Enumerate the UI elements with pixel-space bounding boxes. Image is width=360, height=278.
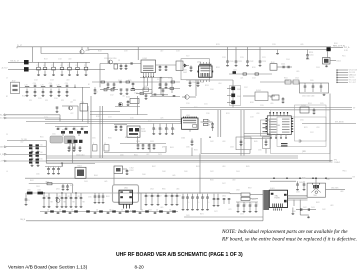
svg-text:R: R [209, 124, 211, 126]
svg-text:D6: D6 [41, 144, 43, 146]
svg-text:C121: C121 [238, 61, 242, 63]
svg-text:C6: C6 [59, 210, 61, 212]
svg-text:L122: L122 [70, 113, 74, 115]
svg-text:L313: L313 [316, 127, 320, 129]
svg-text:C1: C1 [157, 79, 159, 81]
svg-text:C650: C650 [184, 171, 188, 173]
svg-text:C312: C312 [310, 132, 314, 134]
svg-text:L119: L119 [160, 51, 163, 53]
svg-text:X101: X101 [126, 97, 130, 99]
svg-text:C112: C112 [110, 95, 114, 97]
svg-text:L: L [199, 202, 200, 204]
svg-text:C850: C850 [222, 196, 226, 198]
svg-text:C640: C640 [36, 174, 40, 176]
svg-text:L121: L121 [233, 69, 237, 71]
svg-text:L20: L20 [41, 84, 44, 86]
svg-text:R8: R8 [64, 202, 66, 204]
svg-text:K601: K601 [78, 165, 82, 167]
svg-text:FL201: FL201 [256, 90, 261, 92]
svg-text:C: C [244, 143, 246, 145]
svg-text:] R: ] R [163, 147, 166, 149]
svg-text:FL401: FL401 [270, 188, 275, 190]
svg-text:L665: L665 [160, 207, 164, 209]
svg-text:L204: L204 [218, 83, 222, 85]
svg-text:L622: L622 [146, 154, 150, 156]
svg-text:C808: C808 [236, 190, 240, 192]
svg-text:C430: C430 [299, 182, 303, 184]
svg-text:C6: C6 [96, 210, 98, 212]
svg-text:R616: R616 [108, 138, 112, 140]
svg-text:C: C [168, 129, 170, 131]
svg-text:R8: R8 [83, 202, 85, 204]
svg-text:L4: L4 [6, 171, 8, 173]
svg-text:C670: C670 [186, 215, 190, 217]
svg-text:R208: R208 [250, 102, 254, 104]
svg-text:C204: C204 [192, 82, 196, 84]
svg-text:R651: R651 [196, 166, 200, 168]
svg-text:C1: C1 [96, 92, 98, 94]
svg-text:C310: C310 [300, 120, 304, 122]
svg-text:C20: C20 [65, 83, 68, 85]
svg-text:C105: C105 [38, 98, 42, 100]
svg-text:C804: C804 [150, 189, 154, 191]
svg-text:C305: C305 [310, 80, 314, 82]
svg-text:SW_B+: SW_B+ [344, 47, 350, 49]
svg-text:C103: C103 [50, 80, 54, 82]
svg-text:C106: C106 [54, 98, 58, 100]
svg-text:C1: C1 [84, 65, 86, 67]
svg-text:C205: C205 [200, 82, 204, 84]
svg-text:J103: J103 [271, 62, 275, 64]
svg-text:8-20: 8-20 [135, 265, 145, 270]
svg-text:L683: L683 [330, 205, 334, 207]
svg-text:C634: C634 [230, 147, 234, 149]
svg-text:C221: C221 [262, 57, 266, 59]
svg-text:C: C [75, 127, 77, 129]
svg-text:C121: C121 [108, 117, 112, 119]
svg-text:C8: C8 [46, 196, 48, 198]
svg-text:RX_B: RX_B [0, 118, 5, 120]
svg-text:C218: C218 [222, 57, 226, 59]
svg-text:C610: C610 [52, 134, 56, 136]
svg-text:C120: C120 [229, 61, 233, 63]
svg-text:R210: R210 [194, 107, 198, 109]
svg-text:CV301: CV301 [301, 105, 306, 107]
svg-text:SPI_MOSI: SPI_MOSI [335, 122, 344, 124]
svg-text:C20: C20 [33, 83, 36, 85]
svg-text:C550: C550 [136, 141, 140, 143]
svg-text:C: C [60, 167, 62, 169]
svg-text:C117: C117 [160, 78, 164, 80]
svg-text:U801: U801 [124, 187, 128, 189]
svg-text:R671: R671 [200, 214, 204, 216]
svg-text:C9: C9 [168, 196, 170, 198]
svg-text:C109: C109 [86, 50, 90, 52]
svg-text:R807: R807 [248, 188, 252, 190]
svg-text:C: C [67, 127, 69, 129]
svg-text:PA_B: PA_B [20, 218, 25, 221]
svg-text:TP401: TP401 [342, 171, 347, 173]
svg-text:R805: R805 [162, 189, 166, 191]
svg-text:C646: C646 [142, 174, 146, 176]
svg-text:T401: T401 [314, 195, 318, 197]
svg-text:C110 L110 R110: C110 L110 R110 [104, 58, 116, 60]
svg-text:R502: R502 [306, 59, 310, 61]
svg-text:CS J2-5: CS J2-5 [349, 77, 355, 79]
svg-text:L811: L811 [38, 190, 42, 192]
svg-text:R621: R621 [134, 155, 138, 157]
svg-text:Q102: Q102 [118, 80, 122, 82]
svg-text:R220: R220 [252, 67, 256, 69]
svg-text:L653: L653 [222, 166, 226, 168]
svg-text:C1: C1 [28, 200, 30, 202]
svg-text:R118: R118 [144, 86, 148, 88]
svg-text:C232: C232 [250, 117, 254, 119]
svg-text:C21: C21 [61, 100, 64, 102]
svg-text:L633: L633 [222, 141, 226, 143]
svg-text:C129: C129 [176, 51, 180, 53]
svg-text:R314: R314 [308, 103, 312, 105]
svg-text:2.5MHZ: 2.5MHZ [334, 162, 341, 164]
svg-text:C8: C8 [78, 196, 80, 198]
svg-text:C8: C8 [68, 196, 70, 198]
svg-text:J102: J102 [12, 80, 16, 82]
svg-text:C301 C302 C303: C301 C302 C303 [302, 96, 314, 98]
svg-text:L806: L806 [176, 189, 180, 191]
svg-text:C102: C102 [34, 80, 38, 82]
svg-text:R681: R681 [316, 202, 320, 204]
svg-text:C108: C108 [58, 59, 62, 61]
svg-text:C210: C210 [186, 103, 190, 105]
svg-text:C402: C402 [183, 72, 187, 74]
svg-text:C239: C239 [272, 44, 276, 46]
svg-text:C315: C315 [320, 103, 324, 105]
svg-text:C654: C654 [236, 171, 240, 173]
svg-text:C680: C680 [292, 211, 296, 213]
svg-text:VCO: VCO [186, 56, 190, 58]
svg-text:CLK J2-3: CLK J2-3 [349, 72, 356, 74]
svg-text:C6: C6 [141, 210, 143, 212]
svg-text:C652: C652 [210, 171, 214, 173]
svg-text:C: C [55, 167, 57, 169]
svg-text:C119: C119 [124, 51, 128, 53]
svg-text:L249: L249 [300, 44, 304, 46]
svg-text:R506: R506 [334, 43, 338, 45]
svg-text:D6: D6 [41, 152, 43, 154]
svg-text:R663: R663 [130, 211, 134, 213]
svg-text:R655: R655 [246, 166, 250, 168]
svg-text:C21: C21 [29, 100, 32, 102]
svg-text:U501: U501 [337, 60, 341, 62]
svg-text:A_9.1V: A_9.1V [2, 67, 9, 70]
svg-text:U301: U301 [277, 125, 281, 127]
svg-text:C620: C620 [120, 155, 124, 157]
svg-text:R644: R644 [94, 175, 98, 177]
svg-text:L688: L688 [340, 191, 344, 193]
svg-text:L810: L810 [27, 190, 31, 192]
svg-text:C: C [239, 204, 241, 206]
svg-text:R611: R611 [40, 137, 44, 139]
svg-text:ANT: ANT [0, 145, 5, 148]
svg-text:C3: C3 [118, 60, 120, 62]
svg-text:2ND_MIX: 2ND_MIX [331, 188, 339, 190]
svg-text:L: L [189, 202, 190, 204]
svg-text:C6: C6 [121, 210, 123, 212]
svg-text:D201: D201 [237, 89, 241, 91]
svg-text:F501: F501 [342, 56, 346, 58]
svg-text:C113: C113 [134, 93, 138, 95]
svg-text:RX_5 J2-6: RX_5 J2-6 [349, 80, 356, 82]
svg-text:C125: C125 [130, 118, 134, 120]
svg-text:C: C [83, 127, 85, 129]
svg-text:C219: C219 [240, 57, 244, 59]
svg-text:C206: C206 [210, 89, 214, 91]
svg-text:C207: C207 [244, 87, 248, 89]
svg-text:FILTER: FILTER [275, 198, 281, 200]
svg-text:C1: C1 [37, 65, 39, 67]
svg-text:L20: L20 [57, 84, 60, 86]
svg-text:L505: L505 [296, 71, 300, 73]
svg-text:R229: R229 [216, 44, 220, 46]
svg-text:R301: R301 [284, 78, 288, 80]
svg-text:C: C [162, 129, 164, 131]
svg-text:C230: C230 [206, 113, 210, 115]
svg-text:R203: R203 [205, 85, 209, 87]
svg-text:L20: L20 [25, 84, 28, 86]
svg-text:C: C [245, 204, 247, 206]
svg-text:16.8M: 16.8M [141, 131, 146, 133]
svg-text:C209: C209 [260, 105, 264, 107]
svg-text:R117: R117 [168, 78, 172, 80]
svg-text:R631: R631 [194, 150, 198, 152]
svg-text:L673: L673 [228, 209, 232, 211]
svg-text:C: C [59, 127, 61, 129]
svg-text:PA_A: PA_A [0, 114, 5, 117]
svg-text:C8: C8 [59, 196, 61, 198]
svg-text:R603: R603 [62, 130, 66, 132]
svg-text:U101: U101 [143, 58, 148, 60]
svg-text:C803: C803 [36, 186, 40, 188]
svg-text:L209: L209 [270, 103, 274, 105]
svg-text:C6: C6 [156, 210, 158, 212]
svg-text:C643: C643 [84, 181, 88, 183]
svg-text:C141: C141 [281, 64, 285, 66]
svg-text:R624: R624 [170, 147, 174, 149]
svg-text:R685: R685 [302, 178, 306, 180]
svg-text:C20: C20 [49, 83, 52, 85]
svg-text:RF board, so the entire board: RF board, so the entire board must be re… [221, 236, 357, 243]
svg-text:R151: R151 [309, 52, 313, 54]
svg-text:C662: C662 [110, 210, 114, 212]
svg-text:UHF RF BOARD VER A/B SCHEMATIC: UHF RF BOARD VER A/B SCHEMATIC (PAGE 1 O… [116, 252, 243, 258]
svg-text:R113: R113 [152, 96, 156, 98]
svg-text:R124: R124 [148, 121, 152, 123]
svg-text:Q401: Q401 [197, 62, 201, 64]
svg-text:] 5R: ] 5R [302, 151, 306, 153]
svg-text:R1: R1 [88, 84, 90, 86]
svg-text:L649: L649 [172, 175, 176, 177]
svg-text:L: L [209, 202, 210, 204]
svg-text:C682: C682 [322, 209, 326, 211]
svg-text:D202: D202 [237, 96, 241, 98]
svg-text:C9: C9 [154, 196, 156, 198]
svg-text:C123: C123 [262, 61, 266, 63]
svg-text:C9: C9 [179, 196, 181, 198]
svg-text:C9: C9 [160, 196, 162, 198]
svg-text:C551: C551 [150, 141, 154, 143]
svg-text:L240: L240 [285, 80, 289, 82]
svg-text:D401: D401 [183, 70, 187, 72]
svg-text:Q801: Q801 [56, 189, 60, 191]
svg-text:L126: L126 [160, 118, 164, 120]
svg-text:L612: L612 [20, 142, 24, 144]
svg-text:C636: C636 [258, 150, 262, 152]
svg-text:C: C [204, 197, 206, 199]
svg-text:L22: L22 [70, 102, 73, 104]
svg-text:U201: U201 [186, 115, 190, 117]
svg-text:R802: R802 [70, 185, 74, 187]
svg-text:C504: C504 [286, 59, 290, 61]
svg-text:C: C [50, 167, 52, 169]
svg-text:R107: R107 [44, 59, 48, 61]
svg-text:L103: L103 [66, 80, 70, 82]
svg-text:R104: R104 [22, 96, 26, 98]
svg-text:C9: C9 [174, 196, 176, 198]
svg-text:C: C [174, 129, 176, 131]
svg-text:C657: C657 [222, 183, 226, 185]
svg-text:C623: C623 [158, 154, 162, 156]
svg-text:C615: C615 [92, 138, 96, 140]
svg-text:C674: C674 [240, 214, 244, 216]
svg-text:R656: R656 [210, 180, 214, 182]
svg-text:L1: L1 [60, 65, 62, 67]
svg-text:C222: C222 [252, 78, 256, 80]
svg-text:R661: R661 [106, 196, 110, 198]
svg-text:L112: L112 [122, 96, 125, 98]
svg-text:C9: C9 [148, 196, 150, 198]
svg-text:TX_5 J2-7: TX_5 J2-7 [349, 82, 356, 84]
svg-text:R115: R115 [128, 80, 132, 82]
svg-text:R120: R120 [96, 116, 100, 118]
svg-text:NOTE: Individual replacement p: NOTE: Individual replacement parts are n… [221, 228, 348, 235]
svg-text:C: C [155, 129, 157, 131]
svg-text:L645: L645 [104, 181, 108, 183]
svg-text:TX_RF: TX_RF [0, 161, 5, 163]
svg-text:X100: X100 [141, 129, 145, 131]
svg-text:L221: L221 [240, 78, 244, 80]
svg-text:C: C [251, 204, 253, 206]
svg-text:R8: R8 [51, 202, 53, 204]
svg-text:C: C [194, 197, 196, 199]
svg-text:TP2: TP2 [334, 159, 337, 161]
svg-text:C560: C560 [181, 138, 185, 140]
svg-text:C122: C122 [249, 61, 253, 63]
svg-text:C6: C6 [47, 210, 49, 212]
svg-text:R647: R647 [152, 166, 156, 168]
svg-text:C684: C684 [296, 192, 300, 194]
svg-text:C6: C6 [71, 210, 73, 212]
svg-text:9.3V: 9.3V [344, 50, 348, 52]
svg-text:L1: L1 [43, 65, 45, 67]
svg-text:R109: R109 [98, 51, 102, 53]
svg-text:R702: R702 [130, 170, 134, 172]
svg-text:R540 1K: R540 1K [125, 137, 132, 139]
svg-text:C630: C630 [186, 147, 190, 149]
svg-text:R311: R311 [304, 127, 308, 129]
svg-text:C1: C1 [52, 65, 54, 67]
svg-text:T101: T101 [81, 102, 85, 104]
svg-text:C452: C452 [303, 207, 307, 209]
svg-text:C686: C686 [326, 179, 330, 181]
svg-text:R675: R675 [252, 199, 256, 201]
svg-text:U5V_B 16.8: U5V_B 16.8 [349, 70, 357, 72]
svg-text:R635: R635 [254, 141, 258, 143]
svg-text:R8: R8 [73, 202, 75, 204]
svg-text:3V: 3V [353, 107, 356, 109]
svg-text:C503: C503 [316, 67, 320, 69]
svg-text:D6: D6 [41, 159, 43, 161]
svg-text:C3: C3 [6, 134, 8, 136]
svg-text:C151: C151 [309, 55, 313, 57]
svg-text:C648: C648 [162, 171, 166, 173]
svg-text:C211: C211 [204, 104, 208, 106]
svg-text:C664: C664 [148, 210, 152, 212]
svg-text:C1: C1 [68, 65, 70, 67]
svg-text:L108: L108 [68, 59, 72, 61]
svg-text:RX: RX [353, 177, 356, 179]
svg-text:C304: C304 [295, 78, 299, 80]
svg-text:C672: C672 [214, 211, 218, 213]
svg-text:R231: R231 [226, 113, 230, 115]
svg-text:Version A/B Board (see Section: Version A/B Board (see Section 1.13) [8, 265, 88, 271]
svg-text:RX_IN: RX_IN [0, 154, 5, 156]
svg-text:C: C [257, 204, 259, 206]
svg-text:R641: R641 [30, 180, 34, 182]
svg-text:R2: R2 [6, 96, 8, 98]
svg-text:C632: C632 [210, 141, 214, 143]
svg-text:C666: C666 [170, 211, 174, 213]
svg-text:C453: C453 [311, 207, 315, 209]
svg-text:C21: C21 [45, 100, 48, 102]
svg-text:C660: C660 [88, 197, 92, 199]
svg-text:C: C [184, 197, 186, 199]
svg-text:R201: R201 [216, 67, 220, 69]
svg-text:R604: R604 [74, 130, 78, 132]
svg-text:J3: J3 [6, 78, 8, 80]
svg-text:XTAL: XTAL [275, 195, 279, 198]
svg-text:C123: C123 [44, 117, 48, 119]
svg-text:L1: L1 [76, 65, 78, 67]
svg-text:C21: C21 [73, 100, 76, 102]
svg-text:L233: L233 [256, 113, 260, 115]
svg-text:L658: L658 [232, 180, 236, 182]
